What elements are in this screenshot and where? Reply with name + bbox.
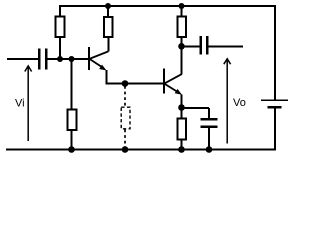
wire C1 to Q1 base	[47, 58, 88, 60]
wire C2 right plate to output	[209, 46, 244, 48]
resistor RE dashed bottom lead	[124, 130, 126, 148]
resistor R1 body	[56, 17, 65, 38]
wire battery top lead	[274, 5, 276, 100]
transistor Q2 collector diagonal	[165, 74, 183, 84]
resistor R2 body	[68, 110, 77, 131]
wire Q1 emitter vertical	[106, 70, 108, 85]
transistor Q1 base bar	[88, 47, 90, 70]
node junction dot Q2 emitter node	[178, 104, 185, 111]
wire R4 top lead	[181, 6, 183, 17]
resistor RE dashed top lead	[124, 86, 126, 107]
wire input line left of C1	[7, 58, 38, 60]
node junction dot ground at RE	[122, 146, 129, 153]
node junction dot emitter wire at RE	[122, 80, 129, 87]
node junction dot input at R2	[69, 56, 75, 62]
wire Q2 emitter vertical	[181, 95, 183, 109]
wire R2 bottom lead	[71, 131, 73, 150]
capacitor C2 right plate	[206, 36, 209, 55]
battery V1 short negative plate	[268, 106, 282, 108]
node junction dot ground at R5	[178, 146, 185, 153]
transistor Q1 collector diagonal	[90, 51, 108, 58]
capacitor C2 left plate	[200, 36, 203, 55]
wire Q1 emitter to Q2 base	[106, 83, 164, 85]
transistor Q1 emitter arrowhead	[99, 65, 106, 71]
wire R2 top lead	[71, 60, 73, 111]
transistor Q2 emitter arrowhead	[175, 89, 182, 95]
transistor Q2 base bar	[163, 68, 165, 93]
wire battery bottom lead	[274, 108, 276, 151]
svg-text:Vo: Vo	[233, 97, 246, 109]
wire C3 bottom lead	[208, 128, 210, 151]
wire R4 bottom lead	[181, 38, 183, 44]
wire R1 top lead	[59, 5, 61, 18]
node junction dot input at R1	[57, 56, 63, 62]
svg-text:Vi: Vi	[15, 98, 25, 110]
node junction dot collector node at C2	[178, 43, 185, 50]
transistor Q2 emitter diagonal	[165, 84, 177, 92]
battery V1 long positive plate	[261, 100, 288, 102]
wire bottom ground rail	[6, 149, 276, 151]
capacitor C1 right plate	[45, 49, 48, 70]
wire R1 bottom lead	[59, 38, 61, 60]
capacitor C1 left plate	[38, 49, 41, 70]
wire Q2 collector vertical	[181, 46, 183, 74]
capacitor C3 bottom plate	[201, 125, 218, 128]
arrow Vo head	[224, 59, 231, 64]
wire node C to C2 left plate	[182, 46, 201, 48]
node junction dot top rail at R3	[105, 3, 111, 9]
node junction dot top rail at R4	[179, 3, 185, 9]
resistor R3 body	[104, 17, 113, 37]
node junction dot ground at R2	[68, 146, 75, 153]
wire top supply rail	[59, 5, 276, 7]
wire C3 top lead	[208, 108, 210, 119]
arrow Vi shaft	[27, 67, 29, 142]
node junction dot ground at C3	[206, 146, 213, 153]
wire emitter node to C3	[182, 107, 210, 109]
arrow Vo shaft	[226, 60, 228, 144]
wire R5 bottom lead	[181, 140, 183, 151]
resistor R5 body	[178, 119, 187, 140]
wire R3 top lead	[107, 6, 109, 16]
resistor RE dashed body	[121, 107, 130, 129]
resistor R4 body	[178, 17, 187, 38]
wire R3 bottom lead / Q1 collector vertical	[107, 37, 109, 52]
transistor Q1 emitter diagonal	[90, 59, 103, 67]
arrow Vi head	[25, 66, 32, 72]
capacitor C3 top plate	[201, 118, 218, 120]
wire R5 top lead	[181, 109, 183, 119]
